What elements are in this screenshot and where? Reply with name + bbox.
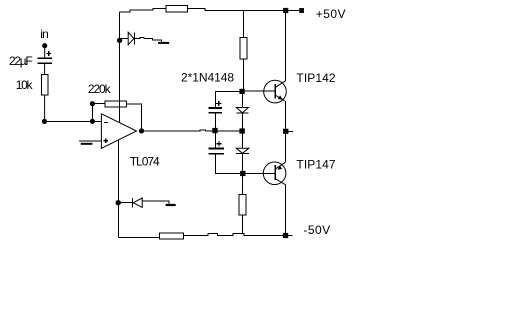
junction 220k left (90, 101, 95, 106)
wire base top mid node to Q1 (245, 90, 275, 92)
svg-text:22µF: 22µF (9, 54, 32, 68)
wire bias resistor to top mid node (242, 59, 244, 89)
capacitor C2 (209, 108, 223, 113)
wire C2 to cap mid node (214, 113, 216, 130)
ground at op-amp + input (81, 143, 93, 145)
wire top rail left segment (119, 9, 166, 12)
wire -50V stub (288, 235, 292, 237)
wire 220k right to feedback corner (126, 104, 141, 131)
wire D1 cathode to ground (134, 38, 161, 42)
resistor top rail (166, 6, 188, 12)
node +50V terminal (299, 8, 304, 13)
resistor bottom rail (160, 233, 184, 239)
capacitor 22µF polarity plus (46, 51, 51, 56)
wire op-amp output to diode mid node (142, 130, 240, 131)
junction op-amp output (139, 128, 144, 133)
svg-text:in: in (40, 27, 48, 41)
svg-text:TIP147: TIP147 (296, 158, 336, 172)
junction output node (283, 129, 288, 134)
wire op-amp + input to ground (79, 140, 101, 142)
wire bottom rail right segment (184, 233, 283, 235)
resistor bias upper (240, 38, 247, 60)
wire cap mid node to capacitor C3 (214, 133, 216, 148)
wire bias resistor lower to bottom rail (242, 215, 244, 234)
resistor 10k (42, 74, 48, 95)
wire Q2 collector to -50V node (285, 185, 287, 233)
svg-text:TIP142: TIP142 (296, 71, 336, 85)
diode D1 (to ground, pointing right) (128, 32, 134, 44)
wire output stub (288, 130, 293, 132)
svg-text:-50V: -50V (303, 223, 330, 237)
wire output node to Q2 emitter (285, 134, 287, 162)
wire top mid node to capacitor C2 (215, 91, 239, 107)
wire between 220k-left and inverting node (91, 104, 93, 122)
wire R 10k to input node (44, 95, 46, 122)
wire 220k-left node to resistor (92, 103, 105, 105)
junction -50V rail node (283, 233, 288, 238)
wire input node to inverting node (45, 120, 93, 122)
diode D2 (to ground, pointing left) (133, 198, 143, 207)
op-amp U1 TL074 triangle (101, 114, 136, 149)
transistor Q1 emitter arrow (278, 95, 283, 99)
wire C to R 10k (44, 63, 46, 74)
resistor 220k (105, 101, 126, 107)
junction diode mid node (239, 128, 244, 133)
junction top mid node (239, 89, 244, 94)
wire D3 to diode mid node (241, 113, 243, 128)
junction inverting input (90, 119, 95, 124)
wire V- supply (op-amp bottom edge to rail) (117, 140, 119, 238)
capacitor C2 polarity plus (216, 101, 221, 106)
wire inverting node to op-amp (92, 120, 101, 122)
diode D4 1N4148 (236, 148, 249, 153)
ground at D2 (166, 204, 176, 206)
wire base bottom mid node to Q2 (246, 172, 276, 174)
wire top rail right segment (188, 9, 284, 11)
transistor Q1 TIP142 (264, 80, 287, 103)
svg-text:TL074: TL074 (130, 155, 160, 169)
wire diode mid node to D4 (241, 134, 243, 149)
capacitor C3 (209, 148, 224, 153)
wire clamp node to diode D1 (121, 37, 129, 39)
wire C3 to bottom mid node (215, 154, 239, 174)
wire Q1 emitter to output node (285, 101, 287, 129)
wire rail to bias resistor top (242, 11, 244, 38)
wire bottom mid node to bias resistor lower (242, 176, 244, 194)
diode D3 1N4148 (236, 108, 248, 114)
wire D2 anode to ground (142, 201, 169, 204)
wire bottom rail left segment (118, 237, 159, 239)
wire V+ supply (rail to op-amp top edge) (119, 12, 121, 123)
junction cap mid node (212, 128, 217, 133)
wire top mid node to D3 (241, 94, 243, 108)
resistor bias lower (239, 194, 246, 215)
junction V+ clamp node (117, 38, 122, 43)
junction +50V rail node (283, 8, 288, 13)
svg-text:+50V: +50V (316, 7, 346, 21)
transistor Q2 TIP147 (263, 162, 286, 185)
wire in-dot to C input (44, 46, 46, 58)
ground at D1 (158, 42, 169, 44)
op-amp non-inverting pin mark (103, 138, 108, 143)
wire D4 to bottom mid node (242, 153, 244, 171)
capacitor 22µF (38, 58, 52, 63)
junction bottom mid node (240, 171, 245, 176)
junction V- clamp node (116, 200, 121, 205)
transistor Q2 emitter arrow (278, 165, 283, 170)
svg-text:10k: 10k (16, 78, 34, 92)
svg-text:220k: 220k (88, 82, 112, 96)
junction input node (42, 119, 47, 124)
op-amp inverting pin mark (104, 121, 108, 123)
wire clamp node to diode D2 (120, 202, 133, 204)
wire +50V node to terminal (288, 10, 299, 12)
capacitor C3 polarity plus (216, 141, 221, 146)
wire +50V node to Q1 collector (285, 13, 287, 81)
svg-text:2*1N4148: 2*1N4148 (181, 71, 234, 85)
node in (terminal dot) (42, 43, 47, 48)
